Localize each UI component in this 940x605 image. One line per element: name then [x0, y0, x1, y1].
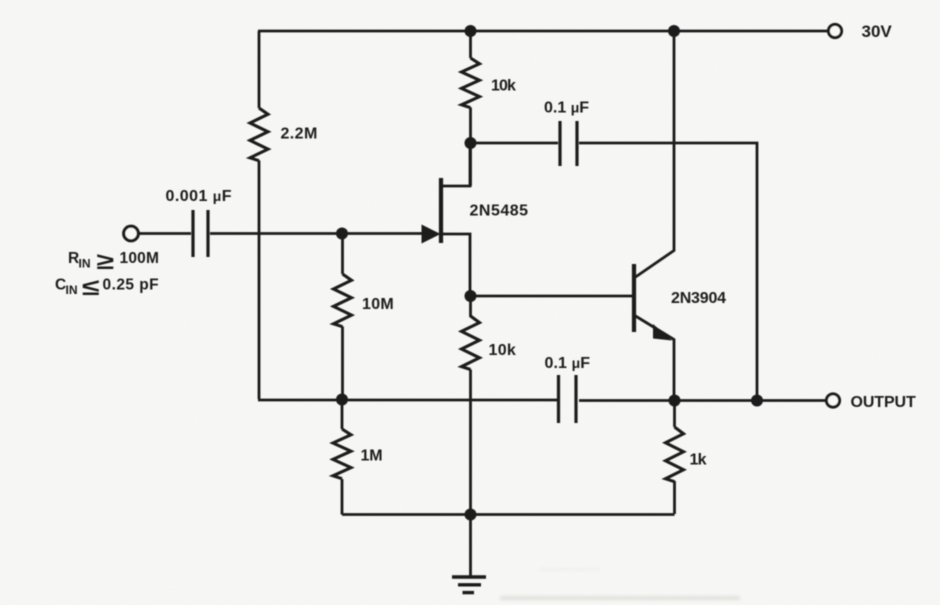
resistor 1M: [333, 429, 351, 479]
svg-text:10M: 10M: [362, 296, 394, 313]
svg-text:10k: 10k: [489, 342, 517, 359]
node drain / 10k / 0.1uF junction: [465, 137, 477, 149]
wire node to 1M: [341, 400, 344, 430]
svg-text:≤: ≤: [82, 274, 100, 300]
JFET Q1 2N5485 gate arrow: [422, 225, 441, 244]
svg-text:0.25 pF: 0.25 pF: [103, 277, 160, 294]
label RIN spec: [68, 248, 159, 274]
label 10k source: [489, 342, 517, 359]
capacitor 0.001uF: [193, 210, 208, 257]
wire 1M bottom to ground rail: [341, 479, 344, 515]
wire 10M bottom to lower wire: [341, 327, 344, 400]
node source junction: [465, 290, 477, 302]
wire input to coupling cap: [139, 232, 191, 235]
resistor 10M: [334, 274, 352, 327]
wire ground stub: [469, 515, 472, 577]
label 10M: [362, 296, 394, 313]
wire 10k source bottom to ground rail: [469, 370, 472, 516]
wire lower horizontal left segment: [258, 399, 557, 402]
wire left column bottom: [258, 161, 261, 400]
wire left column top (2.2M branch from rail): [258, 31, 261, 108]
label 2N5485: [470, 203, 529, 220]
wire source node to 10k source resistor: [469, 296, 472, 317]
svg-text:IN: IN: [79, 257, 91, 271]
svg-text:2N5485: 2N5485: [470, 203, 529, 220]
svg-text:100M: 100M: [120, 250, 160, 267]
resistor 10k source: [462, 316, 480, 369]
svg-text:1k: 1k: [690, 452, 707, 469]
svg-text:IN: IN: [66, 283, 78, 297]
label 0.1uF bottom: [545, 355, 591, 372]
svg-text:2N3904: 2N3904: [671, 290, 726, 307]
wire coupling cap to gate: [210, 232, 423, 235]
svg-text:2.2M: 2.2M: [281, 126, 318, 143]
resistor 10k drain: [462, 58, 480, 108]
node ground rail junction: [465, 509, 477, 521]
wire 10k bottom to drain node: [469, 108, 472, 187]
transistor Q2 emitter lead: [636, 316, 675, 400]
label 30V: [862, 22, 893, 41]
wire 1k bottom to ground rail: [673, 481, 676, 514]
svg-text:≥: ≥: [97, 248, 115, 274]
label 2.2M: [281, 126, 318, 143]
wire top supply rail: [258, 30, 828, 33]
input terminal: [124, 226, 139, 241]
label 2N3904: [671, 290, 726, 307]
label OUTPUT: [851, 394, 917, 411]
svg-text:10k: 10k: [491, 78, 516, 95]
wire lower horizontal right segment: [579, 399, 827, 402]
wire bottom ground rail: [342, 513, 675, 516]
label 1M: [361, 448, 383, 465]
JFET Q1 source lead: [441, 234, 470, 296]
label CIN spec: [55, 274, 159, 300]
wire 0.1uF to right column: [579, 143, 757, 400]
transistor Q2 collector lead: [636, 31, 675, 277]
resistor 1k: [666, 427, 684, 482]
JFET Q1 drain lead: [441, 144, 470, 186]
svg-text:30V: 30V: [862, 22, 893, 41]
wire emitter node to 1k: [673, 401, 676, 428]
wire 10M column: [341, 234, 344, 275]
node 10k top of rail junction: [465, 25, 477, 37]
30V terminal: [828, 24, 841, 37]
transistor Q2 2N3904 base bar: [632, 264, 636, 332]
svg-text:0.1 μF: 0.1 μF: [544, 100, 589, 117]
wire rail to 10k drain resistor: [469, 31, 472, 58]
wire source node to base: [470, 295, 632, 298]
JFET Q1 2N5485 channel bar: [439, 178, 443, 243]
label 1k: [690, 452, 707, 469]
svg-text:0.001 μF: 0.001 μF: [166, 188, 232, 205]
wire drain node to 0.1uF cap: [471, 142, 559, 145]
resistor 2.2M: [250, 108, 268, 161]
label 10k drain: [491, 78, 516, 95]
label 0.001uF: [166, 188, 232, 205]
capacitor 0.1uF bottom: [559, 375, 577, 423]
svg-text:0.1 μF: 0.1 μF: [545, 355, 591, 372]
ground symbol: [452, 577, 486, 593]
node right column / output junction: [751, 395, 763, 407]
label 0.1uF top: [544, 100, 589, 117]
node collector on rail: [668, 25, 680, 37]
node emitter / 1k / output junction: [669, 395, 681, 407]
node 10M / 1M junction: [336, 394, 348, 406]
svg-text:OUTPUT: OUTPUT: [851, 394, 917, 411]
transistor Q2 emitter arrow: [653, 324, 672, 341]
node gate / 10M top junction: [336, 228, 348, 240]
capacitor 0.1uF top: [560, 121, 577, 166]
svg-text:1M: 1M: [361, 448, 383, 465]
output terminal: [826, 394, 839, 407]
